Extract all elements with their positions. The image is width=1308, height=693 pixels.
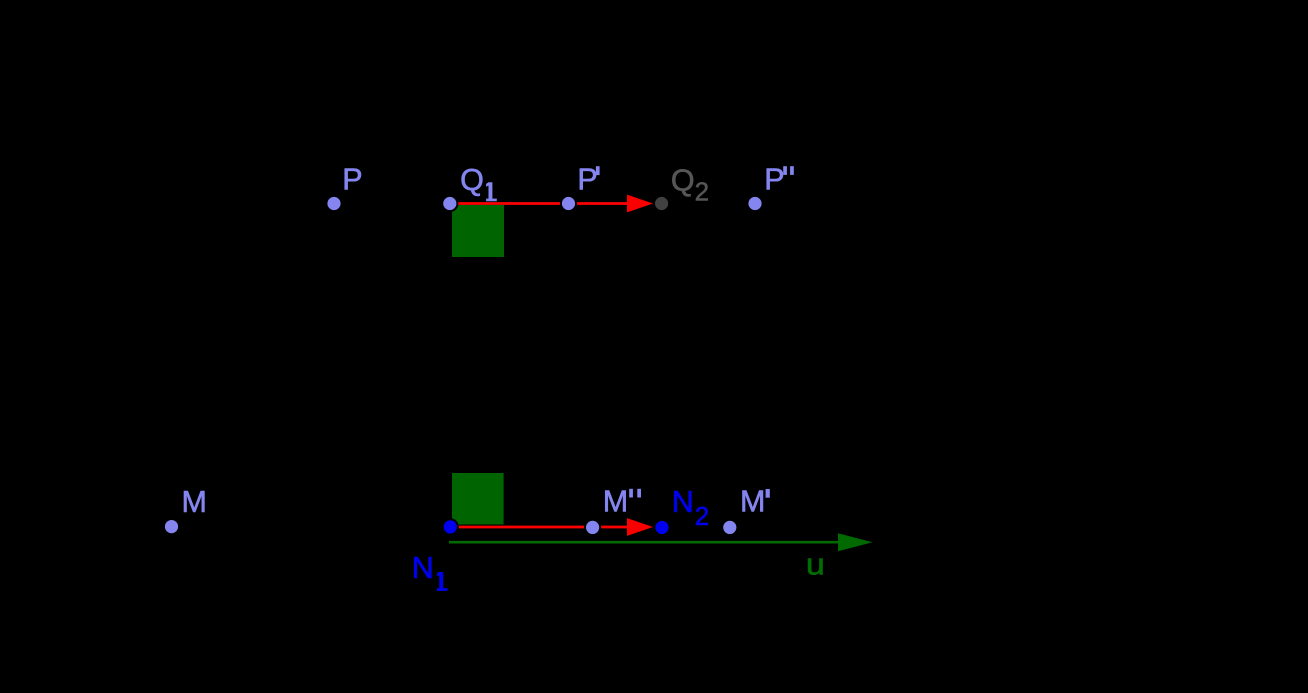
svg-text:M: M (740, 485, 765, 519)
point N1 (443, 519, 458, 534)
point N2 (654, 520, 669, 535)
label P'' (764, 162, 794, 196)
red arrow N1 to N2 (lower) : shaft (451, 526, 629, 529)
svg-text:Q: Q (460, 163, 484, 197)
svg-text:2: 2 (695, 177, 709, 207)
label Q2 (671, 163, 709, 206)
svg-text:P: P (764, 162, 784, 196)
label N2 (672, 485, 710, 531)
svg-text:2: 2 (695, 501, 709, 531)
red arrow Q1 to Q2 (upper) : shaft (450, 202, 629, 205)
vector u : shaft (449, 541, 839, 544)
point M'' (585, 520, 600, 535)
svg-text:P: P (342, 162, 362, 196)
svg-text:N: N (412, 551, 434, 585)
point P'' (747, 196, 762, 211)
svg-text:M: M (182, 485, 207, 519)
point Q2 (654, 196, 669, 211)
point P (326, 196, 341, 211)
label M' (740, 485, 770, 519)
label P' (577, 162, 599, 196)
square (upper figure, attached below line at Q1) (452, 205, 504, 257)
square (lower figure, attached above line at N1) (452, 473, 504, 525)
point P' (561, 196, 576, 211)
svg-text:Q: Q (671, 163, 695, 197)
vector u : head (838, 533, 873, 551)
red arrow N1 to N2 (lower) : head (627, 518, 653, 536)
label Q1 (460, 163, 497, 201)
point M' (722, 520, 737, 535)
svg-text:N: N (672, 485, 694, 519)
svg-text:M: M (603, 485, 628, 519)
svg-text:P: P (577, 162, 597, 196)
red arrow Q1 to Q2 (upper) : head (627, 195, 653, 213)
point M (164, 519, 179, 534)
label u (806, 547, 825, 581)
label M'' (603, 485, 641, 519)
label N1 (412, 551, 448, 591)
svg-text:u: u (806, 547, 825, 581)
point Q1 (442, 196, 457, 211)
